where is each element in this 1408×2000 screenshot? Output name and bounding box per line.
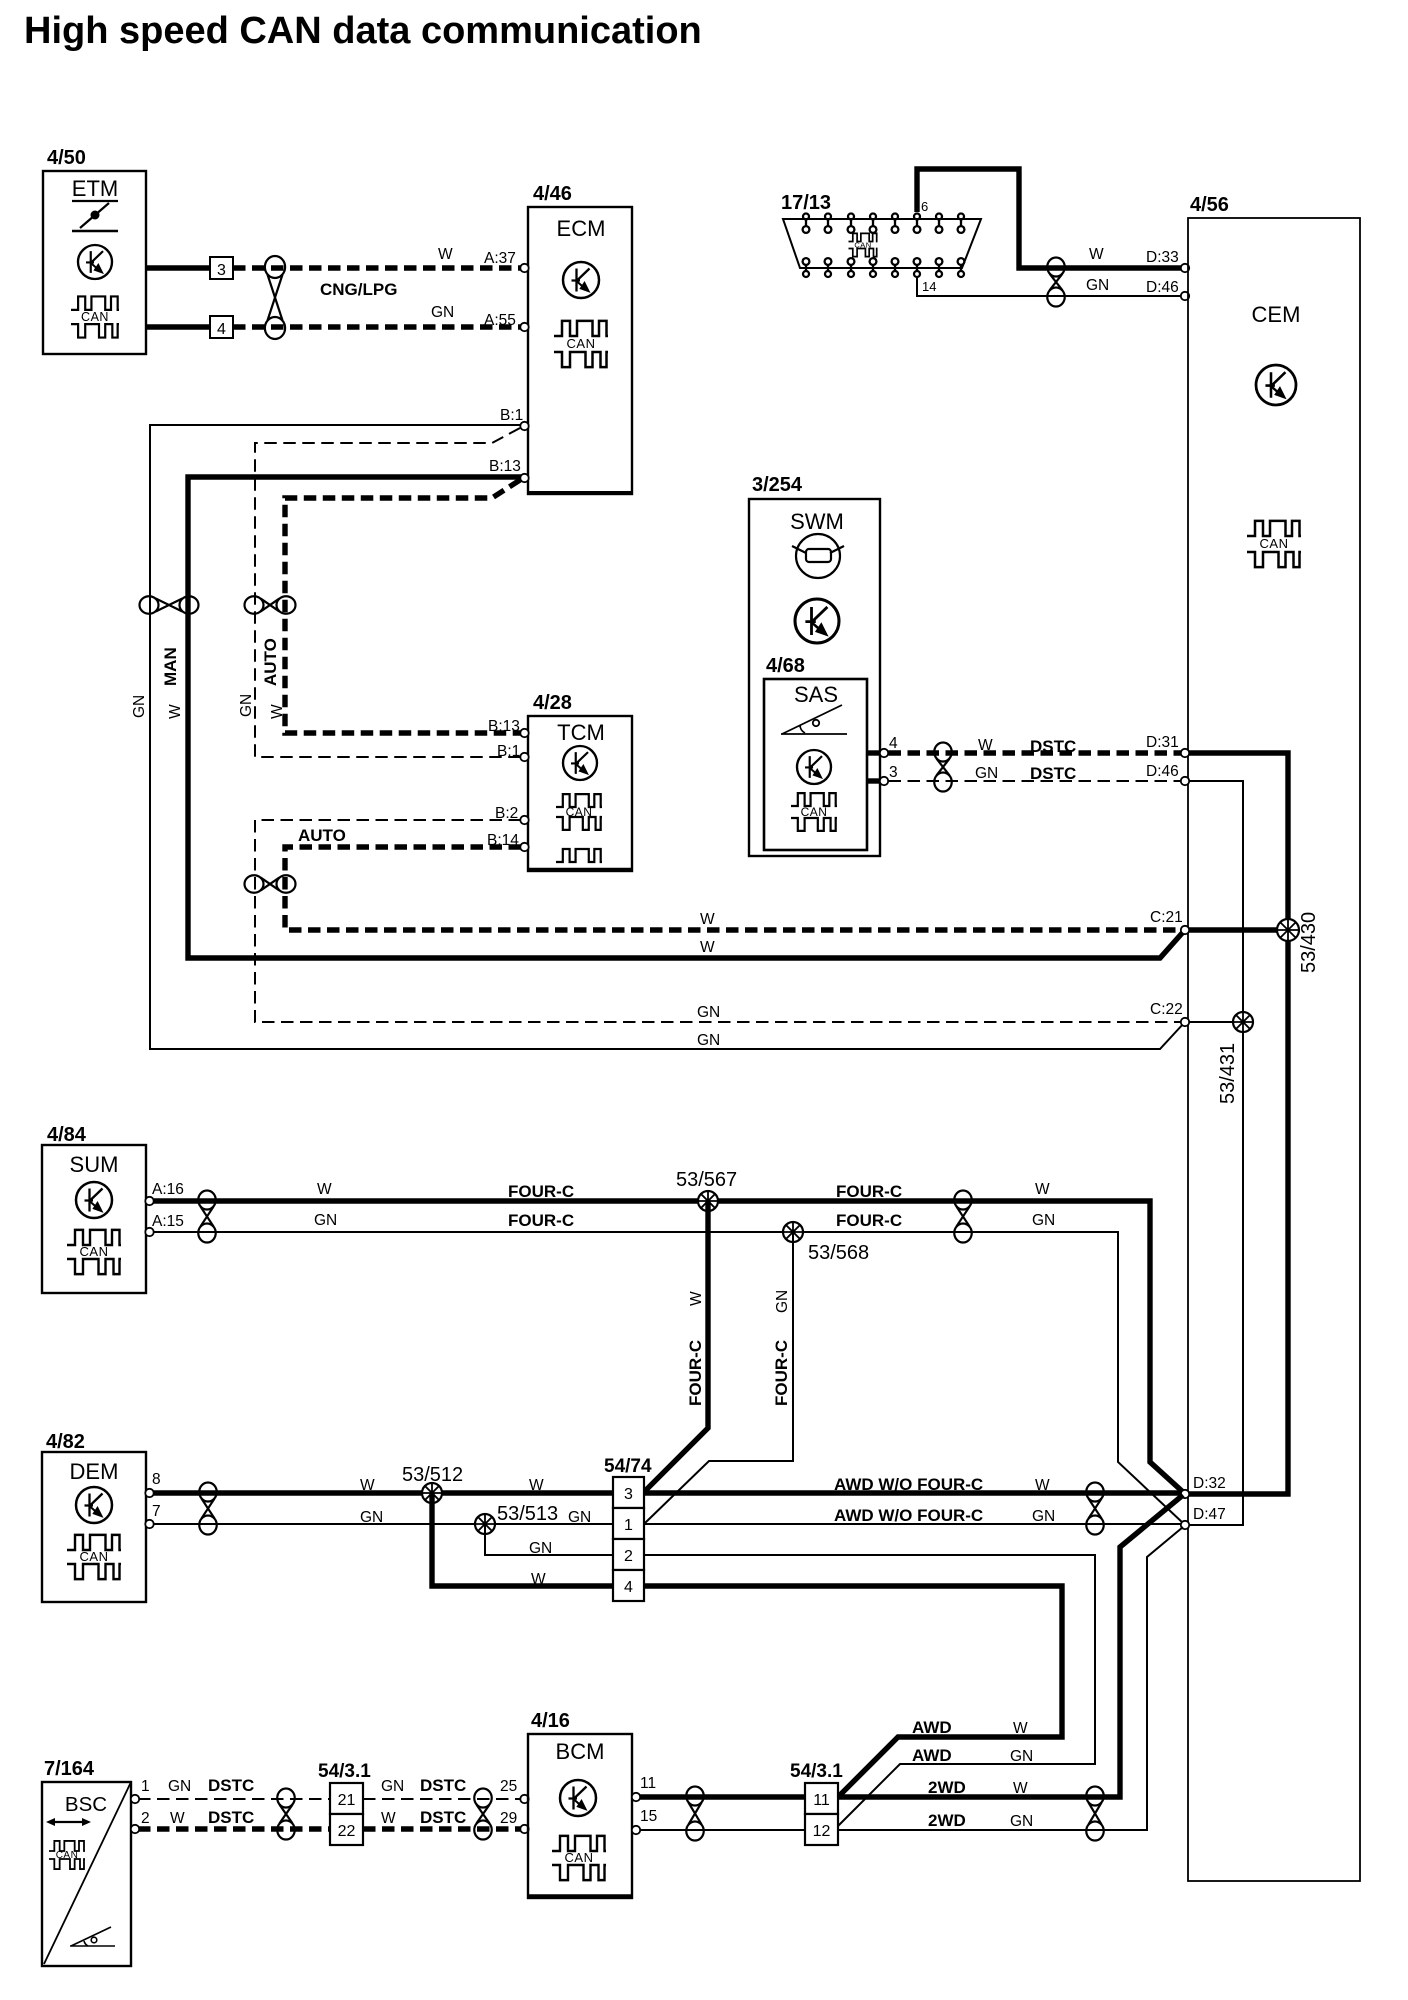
twisted pair CNG/LPG [265, 256, 285, 339]
svg-text:W: W [167, 704, 184, 719]
svg-text:3: 3 [889, 764, 898, 781]
wire DLC pin 14 to CEM D:46 GN [917, 278, 1181, 296]
connector 54/3.1 left [318, 1761, 371, 1845]
svg-text:2WD: 2WD [928, 1811, 966, 1830]
module BSC 7/164 box [42, 1758, 131, 1966]
connector 54/74 [604, 1456, 652, 1601]
terminal BSC 1 [131, 1795, 139, 1803]
svg-text:GN: GN [238, 694, 255, 717]
svg-text:AWD W/O FOUR-C: AWD W/O FOUR-C [834, 1506, 983, 1525]
svg-text:53/430: 53/430 [1298, 912, 1320, 973]
svg-text:GN: GN [168, 1778, 191, 1795]
svg-text:A:15: A:15 [152, 1213, 184, 1230]
module TCM 4/28 box [528, 692, 632, 871]
TCM CAN symbol [556, 794, 602, 830]
svg-text:GN: GN [697, 1032, 720, 1049]
module SUM 4/84 box [42, 1124, 146, 1293]
svg-text:6: 6 [921, 199, 928, 214]
terminal SUM A:16 [145, 1197, 153, 1205]
svg-text:4/68: 4/68 [766, 655, 805, 677]
connector 54/3.1 right [790, 1761, 843, 1845]
svg-text:GN: GN [1032, 1508, 1055, 1525]
wire W DEM pin8 to 54/74 pin 3 [153, 1490, 613, 1495]
inline connector 3 [210, 257, 233, 279]
module ECM 4/46 box [528, 183, 632, 494]
wire GN DEM pin7 to 54/74 pin 1 [153, 1523, 613, 1525]
twisted pair OBD [1047, 258, 1064, 307]
twisted pair DSTC [934, 743, 951, 792]
svg-text:17/13: 17/13 [781, 192, 831, 214]
BSC pedal symbol [70, 1927, 115, 1946]
wire SAS pin 3 stub [867, 778, 880, 783]
twisted pair DEM [199, 1483, 216, 1535]
svg-text:53/513: 53/513 [497, 1503, 558, 1525]
terminal DEM 7 [145, 1520, 153, 1528]
svg-text:29: 29 [500, 1810, 517, 1827]
svg-text:54/3.1: 54/3.1 [318, 1761, 371, 1782]
CEM CAN symbol [1247, 521, 1301, 567]
wire ETM pin 4 stub GN [146, 324, 210, 329]
terminal CEM D:46 [1181, 292, 1189, 300]
terminal SAS pin 4 [880, 749, 888, 757]
svg-text:11: 11 [813, 1792, 830, 1809]
terminal ECM A:55 [520, 323, 528, 331]
svg-text:B:13: B:13 [488, 718, 520, 735]
SAS CAN symbol [791, 793, 837, 831]
wire AUTO W dashed TCM B:14 to CEM C:21 [285, 847, 1181, 930]
wire 53/512 branch to 54/74 pin 4 [432, 1493, 613, 1586]
svg-text:4/46: 4/46 [533, 183, 572, 205]
svg-text:B:1: B:1 [497, 743, 520, 760]
svg-text:7: 7 [152, 1503, 161, 1520]
svg-text:DSTC: DSTC [420, 1808, 466, 1827]
svg-text:8: 8 [152, 1471, 161, 1488]
ECM K symbol [563, 262, 599, 298]
svg-text:4: 4 [217, 321, 226, 338]
svg-text:DEM: DEM [70, 1459, 119, 1484]
wire AWD W/O FOUR-C W 54/74 pin3 to CEM D:32 [644, 1490, 1181, 1495]
wire FOUR-C GN branch 53/568 to 54/74 pin 1 [645, 1232, 793, 1523]
svg-text:DSTC: DSTC [208, 1776, 254, 1795]
svg-text:7/164: 7/164 [44, 1758, 95, 1780]
wire DSTC W dashed 54/3.1 pin22 to BCM 29 [363, 1826, 522, 1831]
svg-text:W: W [700, 939, 715, 956]
svg-text:DSTC: DSTC [208, 1808, 254, 1827]
svg-text:53/431: 53/431 [1217, 1043, 1239, 1104]
svg-text:D:47: D:47 [1193, 1506, 1226, 1523]
svg-text:GN: GN [1010, 1748, 1033, 1765]
svg-text:ETM: ETM [72, 176, 118, 201]
wire CEM internal D:46 to D:47 via 53/431 [1189, 781, 1243, 1525]
TCM K symbol [563, 746, 597, 780]
module ETM 4/50 box [43, 147, 146, 354]
svg-text:B:1: B:1 [500, 407, 523, 424]
DLC pins top row [803, 214, 965, 233]
svg-text:4/56: 4/56 [1190, 194, 1229, 216]
svg-text:GN: GN [314, 1212, 337, 1229]
wire AWD W/O FOUR-C GN 54/74 pin1 to CEM D:47 [644, 1523, 1181, 1525]
module CEM 4/56 box [1188, 194, 1360, 1881]
twisted pair AUTO upper [245, 596, 296, 613]
svg-text:CAN: CAN [80, 1244, 109, 1259]
svg-text:53/567: 53/567 [676, 1169, 737, 1191]
wire FOUR-C W SUM A:16 to CEM D:32 [153, 1201, 1183, 1492]
module BCM 4/16 box [528, 1710, 632, 1898]
wire ETM pin 3 stub W [146, 265, 210, 270]
svg-text:4/28: 4/28 [533, 692, 572, 714]
wire CNG/LPG GN dashed to ECM A:55 [233, 324, 522, 329]
svg-text:W: W [1013, 1720, 1028, 1737]
twisted pair BCM right [686, 1787, 703, 1841]
svg-text:MAN: MAN [161, 647, 180, 686]
svg-text:2: 2 [624, 1548, 633, 1565]
svg-text:1: 1 [624, 1517, 633, 1534]
junction 53/567 [698, 1191, 718, 1211]
wire DSTC GN dashed to CEM D:46 [889, 780, 1182, 782]
ECM CAN symbol [554, 321, 608, 367]
svg-text:15: 15 [640, 1808, 657, 1825]
twisted pair AUTO lower [245, 875, 296, 892]
svg-text:GN: GN [774, 1290, 791, 1313]
svg-text:DSTC: DSTC [1030, 764, 1076, 783]
twisted pair FOUR-C right [954, 1191, 971, 1243]
svg-text:SUM: SUM [70, 1152, 119, 1177]
terminal TCM B:1 [520, 753, 528, 761]
BCM CAN symbol [552, 1836, 606, 1880]
wire 53/513 branch to 54/74 pin 2 [485, 1524, 613, 1555]
svg-text:4/16: 4/16 [531, 1710, 570, 1732]
DEM CAN symbol [67, 1535, 121, 1579]
TCM extra wave symbol [556, 849, 602, 862]
svg-text:FOUR-C: FOUR-C [508, 1211, 574, 1230]
junction 53/431 [1233, 1012, 1253, 1032]
svg-text:GN: GN [381, 1778, 404, 1795]
module DEM 4/82 box [42, 1431, 146, 1602]
terminal TCM B:14 [520, 843, 528, 851]
wire CEM internal C:21 to 53/430 [1189, 927, 1288, 932]
svg-text:4/82: 4/82 [46, 1431, 85, 1453]
terminal TCM B:2 [520, 816, 528, 824]
junction 53/513 [475, 1514, 495, 1534]
terminal BCM 25 [520, 1795, 528, 1803]
wire FOUR-C GN SUM A:15 to CEM D:47 [153, 1232, 1183, 1523]
SWM K symbol [795, 599, 839, 643]
terminal SAS pin 3 [880, 777, 888, 785]
svg-text:54/74: 54/74 [604, 1456, 652, 1477]
terminal CEM D:31 [1181, 749, 1189, 757]
svg-text:CAN: CAN [567, 336, 596, 351]
terminal BSC 2 [131, 1825, 139, 1833]
ETM K symbol [78, 245, 112, 279]
terminal CEM C:21 [1181, 926, 1189, 934]
wire DSTC GN dashed BSC pin1 to 54/3.1 pin21 [138, 1798, 330, 1800]
wire CNG/LPG W dashed to ECM A:37 [233, 265, 522, 270]
svg-text:GN: GN [529, 1540, 552, 1557]
wire MAN GN from ECM B:1 (solid thin) [150, 425, 1184, 1049]
CEM K symbol [1256, 365, 1296, 405]
svg-text:3: 3 [624, 1486, 633, 1503]
svg-text:W: W [700, 911, 715, 928]
svg-text:W: W [381, 1810, 396, 1827]
svg-text:GN: GN [1010, 1813, 1033, 1830]
DEM K symbol [76, 1487, 112, 1523]
wire 2WD W BCM pin11 to CEM D:32 [639, 1495, 1183, 1797]
svg-text:AWD W/O FOUR-C: AWD W/O FOUR-C [834, 1475, 983, 1494]
ETM CAN symbol [71, 296, 119, 337]
terminal ECM B:13 [520, 474, 528, 482]
svg-text:GN: GN [360, 1509, 383, 1526]
svg-text:4: 4 [624, 1579, 633, 1596]
svg-text:W: W [1035, 1181, 1050, 1198]
svg-text:3: 3 [217, 262, 226, 279]
junction 53/512 [422, 1483, 442, 1503]
SAS steering angle symbol [781, 705, 847, 734]
terminal CEM D:46 lower [1181, 777, 1189, 785]
wire AWD W 54/74 pin4 to 54/3.1 pin11 [644, 1586, 1062, 1797]
svg-text:C:22: C:22 [1150, 1001, 1183, 1018]
wire DSTC W dashed BSC pin2 to 54/3.1 pin22 [138, 1826, 330, 1831]
junction 53/568 [783, 1222, 803, 1242]
svg-text:4/84: 4/84 [47, 1124, 87, 1146]
svg-text:3/254: 3/254 [752, 474, 803, 496]
terminal DEM 8 [145, 1489, 153, 1497]
terminal BCM 11 [632, 1793, 640, 1801]
svg-text:2: 2 [141, 1810, 150, 1827]
DLC pins bottom row [803, 258, 965, 277]
svg-text:W: W [360, 1477, 375, 1494]
wire DSTC GN dashed 54/3.1 pin21 to BCM 25 [363, 1798, 522, 1800]
svg-text:GN: GN [697, 1004, 720, 1021]
svg-text:A:55: A:55 [484, 312, 516, 329]
BSC arrow symbol [52, 1821, 85, 1823]
svg-text:High speed CAN data communicat: High speed CAN data communication [24, 10, 702, 52]
svg-text:W: W [1035, 1477, 1050, 1494]
ETM throttle symbol [72, 201, 118, 231]
svg-text:SAS: SAS [794, 682, 838, 707]
svg-text:TCM: TCM [557, 720, 605, 745]
terminal SUM A:15 [145, 1228, 153, 1236]
SUM K symbol [76, 1182, 112, 1218]
svg-text:54/3.1: 54/3.1 [790, 1761, 843, 1782]
svg-text:SWM: SWM [790, 509, 844, 534]
terminal ECM B:1 [520, 422, 528, 430]
terminal BCM 15 [632, 1826, 640, 1834]
twisted pair DSTC right [474, 1789, 491, 1840]
terminal CEM C:22 [1181, 1018, 1189, 1026]
svg-text:CEM: CEM [1252, 302, 1301, 327]
twisted pair FOUR-C left [198, 1191, 215, 1243]
svg-text:GN: GN [131, 695, 148, 718]
svg-text:W: W [438, 246, 453, 263]
wire 2WD GN BCM pin15 to CEM D:47 [639, 1527, 1183, 1830]
wire SAS pin 4 stub [867, 750, 880, 755]
svg-text:D:46: D:46 [1146, 763, 1179, 780]
SUM CAN symbol [67, 1230, 121, 1274]
wire AUTO GN dashed ECM B:1 to TCM B:1 [255, 428, 521, 757]
wire AWD GN 54/74 pin2 to 54/3.1 pin12 [644, 1555, 1095, 1826]
svg-text:CAN: CAN [801, 805, 828, 819]
svg-text:22: 22 [338, 1823, 356, 1840]
svg-text:CAN: CAN [565, 1850, 594, 1865]
svg-text:FOUR-C: FOUR-C [772, 1340, 791, 1406]
svg-text:D:31: D:31 [1146, 734, 1179, 751]
svg-text:B:13: B:13 [489, 458, 521, 475]
twisted pair MAN [140, 596, 199, 613]
svg-text:GN: GN [1086, 277, 1109, 294]
svg-text:W: W [529, 1477, 544, 1494]
svg-text:11: 11 [640, 1775, 656, 1792]
terminal TCM B:13 [520, 729, 528, 737]
svg-text:W: W [1089, 246, 1104, 263]
svg-text:53/568: 53/568 [808, 1242, 869, 1264]
svg-text:AUTO: AUTO [261, 638, 280, 686]
SWM steering wheel symbol [792, 534, 844, 578]
inline connector 4 [210, 316, 233, 338]
wire FOUR-C W branch 53/567 to 54/74 pin 3 [645, 1201, 708, 1491]
twisted pair 2WD [1086, 1787, 1103, 1841]
wire AUTO W dashed ECM B:13 to TCM B:13 [285, 480, 521, 733]
svg-text:W: W [317, 1181, 332, 1198]
svg-text:A:37: A:37 [484, 250, 516, 267]
module SAS 4/68 box [764, 655, 867, 850]
svg-text:D:32: D:32 [1193, 1475, 1226, 1492]
svg-text:FOUR-C: FOUR-C [836, 1211, 902, 1230]
svg-text:D:46: D:46 [1146, 279, 1179, 296]
svg-text:CAN: CAN [81, 310, 109, 324]
twisted pair DSTC left [277, 1789, 294, 1840]
svg-text:2WD: 2WD [928, 1778, 966, 1797]
svg-text:AWD: AWD [912, 1718, 952, 1737]
terminal ECM A:37 [520, 264, 528, 272]
terminal CEM D:32 [1181, 1490, 1189, 1498]
svg-text:W: W [1013, 1780, 1028, 1797]
svg-text:CNG/LPG: CNG/LPG [320, 280, 397, 299]
twisted pair AWD W/O FOUR-C [1086, 1483, 1103, 1535]
svg-text:AWD: AWD [912, 1746, 952, 1765]
svg-text:4: 4 [889, 735, 898, 752]
svg-text:FOUR-C: FOUR-C [686, 1340, 705, 1406]
SAS K symbol [797, 750, 831, 784]
svg-text:W: W [269, 704, 286, 719]
svg-text:GN: GN [568, 1509, 591, 1526]
junction 53/430 [1277, 919, 1299, 941]
wire CEM internal C:22 to 53/431 [1189, 1021, 1243, 1023]
svg-text:AUTO: AUTO [298, 826, 346, 845]
svg-text:BSC: BSC [65, 1793, 107, 1816]
BSC CAN symbol [49, 1841, 85, 1869]
svg-text:W: W [978, 737, 993, 754]
svg-text:DSTC: DSTC [420, 1776, 466, 1795]
svg-text:21: 21 [338, 1792, 356, 1809]
svg-text:W: W [170, 1810, 185, 1827]
wire DSTC W dashed to CEM D:31 [889, 750, 1182, 755]
wire MAN W from ECM B:13 (solid thick) [188, 477, 1184, 958]
svg-text:D:33: D:33 [1146, 249, 1179, 266]
wire AUTO GN dashed TCM B:2 to CEM C:22 [255, 820, 1181, 1022]
svg-text:BCM: BCM [556, 1739, 605, 1764]
svg-text:FOUR-C: FOUR-C [508, 1182, 574, 1201]
svg-text:14: 14 [922, 279, 936, 294]
svg-text:4/50: 4/50 [47, 147, 86, 169]
svg-text:ECM: ECM [557, 216, 606, 241]
svg-text:CAN: CAN [80, 1549, 109, 1564]
svg-text:12: 12 [813, 1823, 831, 1840]
svg-text:GN: GN [1032, 1212, 1055, 1229]
svg-text:C:21: C:21 [1150, 909, 1183, 926]
svg-text:W: W [531, 1571, 546, 1588]
terminal BCM 29 [520, 1825, 528, 1833]
svg-text:W: W [688, 1291, 705, 1306]
module SWM 3/254 box [749, 474, 880, 856]
svg-text:GN: GN [975, 765, 998, 782]
wire DLC pin 6 to CEM D:33 W [917, 169, 1181, 268]
svg-text:A:16: A:16 [152, 1181, 184, 1198]
svg-text:GN: GN [431, 304, 454, 321]
svg-text:DSTC: DSTC [1030, 737, 1076, 756]
terminal CEM D:47 [1181, 1521, 1189, 1529]
svg-text:1: 1 [141, 1778, 150, 1795]
svg-text:FOUR-C: FOUR-C [836, 1182, 902, 1201]
DLC CAN symbol [849, 233, 878, 256]
wire CEM internal D:31 to D:32 via 53/430 [1189, 753, 1288, 1494]
BCM K symbol [560, 1780, 596, 1816]
svg-text:CAN: CAN [1260, 536, 1289, 551]
svg-text:25: 25 [500, 1778, 517, 1795]
terminal CEM D:33 [1181, 264, 1189, 272]
connector 17/13 (DLC) body [781, 192, 981, 268]
